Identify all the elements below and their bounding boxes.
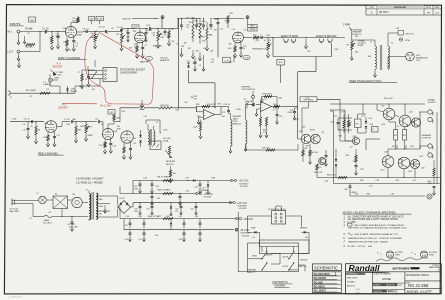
svg-text:GAIN: GAIN: [88, 134, 93, 137]
boxed label CLN: [223, 57, 231, 63]
svg-text:SLO-BLO: SLO-BLO: [43, 223, 52, 225]
svg-text:R19: R19: [122, 111, 126, 113]
label C12 stub: [229, 55, 234, 63]
svg-text:RED: RED: [99, 199, 104, 201]
ground stub: [23, 36, 26, 44]
output transistor Q14: [398, 157, 412, 173]
svg-text:C2D: C2D: [245, 57, 249, 59]
svg-text:600: 600: [355, 52, 358, 54]
V2B cathode: [99, 140, 113, 154]
note 8 package drawing 2: [411, 251, 437, 258]
svg-text:R58: R58: [360, 180, 364, 182]
svg-text:R23: R23: [256, 40, 260, 42]
plug box top wires: [276, 206, 281, 211]
zener D2 5.6V: [66, 86, 77, 93]
svg-text:FOOTSWITCH SOCKET: FOOTSWITCH SOCKET: [120, 69, 146, 71]
input pair Q1 Q2: [301, 134, 320, 144]
bias pot poweramp: [347, 114, 351, 133]
svg-text:R13: R13: [147, 25, 151, 27]
svg-text:R56: R56: [346, 155, 350, 157]
svg-text:SEE: SEE: [368, 246, 373, 248]
wire mains bottom: [30, 204, 89, 218]
svg-text:C14: C14: [232, 29, 236, 31]
svg-text:R8 1/2 WATT: R8 1/2 WATT: [158, 175, 171, 178]
boxed label B2: [89, 17, 95, 25]
note 8: [344, 246, 373, 248]
svg-text:ALL CAPACITORS ARE RATED I: ALL CAPACITORS ARE RATED IN MFD AT 100 V…: [347, 215, 405, 218]
wire clean to B node: [221, 17, 244, 19]
svg-text:ZENER: ZENER: [57, 105, 68, 109]
wire poweramp in: [247, 105, 322, 109]
ellipse label C2D: [243, 55, 250, 59]
svg-text:TANK: TANK: [233, 117, 239, 120]
svg-text:J9: J9: [265, 99, 267, 101]
boxed label THERMAL: [300, 97, 317, 102]
wire LO input: [24, 32, 40, 52]
svg-text:HI 1: HI 1: [8, 31, 13, 34]
red note N=1.33A: [100, 104, 111, 108]
svg-text:500K: 500K: [225, 20, 230, 22]
supply rail 1: [133, 179, 231, 181]
label INTERNAL SPEAKER: [353, 28, 363, 36]
label +45V: [384, 98, 393, 100]
reverb tank coils: [229, 114, 247, 154]
red note 4V ZENER top: [52, 61, 63, 68]
reverb pot: [165, 146, 172, 158]
svg-text:REVISIONS: REVISIONS: [394, 7, 406, 9]
svg-text:YEL: YEL: [99, 214, 103, 216]
svg-text:R47: R47: [356, 123, 359, 125]
svg-text:R28: R28: [176, 109, 180, 111]
svg-text:.02: .02: [186, 27, 189, 29]
svg-text:D14: D14: [369, 118, 373, 120]
svg-text:R65: R65: [139, 216, 143, 218]
svg-text:MID 50K: MID 50K: [123, 18, 132, 20]
svg-text:Q13: Q13: [384, 152, 388, 154]
wire line out vertical: [351, 31, 353, 41]
svg-text:C23: C23: [306, 98, 310, 100]
svg-text:R46: R46: [304, 148, 308, 150]
power transformer T1: [88, 191, 98, 222]
note 5: [344, 233, 400, 236]
label BOTH 2: [283, 266, 289, 268]
label R69 watt: [148, 215, 162, 218]
component value labels: [10, 13, 425, 220]
svg-text:R55: R55: [420, 156, 424, 158]
svg-text:+24 V DC: +24 V DC: [239, 181, 249, 183]
wire top feed: [115, 29, 122, 32]
opamp U1A labels: [196, 104, 231, 106]
svg-text:± .5: ± .5: [356, 292, 359, 294]
wire driver: [340, 130, 352, 141]
output cap to gnd: [433, 184, 436, 196]
svg-text:C37: C37: [413, 180, 417, 182]
svg-text:R1: R1: [438, 269, 440, 271]
mid pot: [120, 33, 125, 51]
label RED switch: [252, 255, 257, 257]
rail mid terminal: [230, 201, 236, 204]
svg-text:REV: REV: [250, 26, 255, 28]
svg-text:MODEL # LEFT: MODEL # LEFT: [407, 290, 433, 294]
svg-text:R37: R37: [355, 36, 359, 38]
wire red ch to V2B: [86, 120, 103, 130]
capacitor C10: [180, 18, 183, 30]
LED pair D4 D5: [134, 130, 142, 147]
svg-text:C5: C5: [106, 33, 108, 35]
svg-text:C12: C12: [95, 119, 99, 121]
label BOTH 1: [283, 256, 289, 258]
ground mid: [140, 100, 143, 108]
svg-text:C11: C11: [57, 135, 60, 137]
svg-text:R9: R9: [117, 34, 119, 36]
svg-text:J5: J5: [320, 41, 322, 43]
svg-text:SCHEMATIC DWGS: SCHEMATIC DWGS: [406, 274, 429, 277]
clean channel vertical: [211, 27, 219, 63]
approved cell: [373, 290, 398, 293]
emitter resistor R51: [394, 130, 398, 141]
svg-text:T2: T2: [370, 42, 372, 44]
svg-text:RG 21 668: RG 21 668: [408, 283, 429, 288]
rail1 caps: [151, 181, 202, 194]
bridge wires: [110, 181, 133, 218]
svg-text:C5 .02: C5 .02: [99, 27, 106, 29]
label FRONT OF PLUG: [268, 209, 286, 211]
svg-text:J3: J3: [284, 41, 286, 43]
supply node B+ 2: [246, 16, 249, 19]
footswitch switch mesh: [248, 240, 309, 272]
svg-text:4FB2C1B: 4FB2C1B: [233, 123, 242, 126]
svg-text:2200: 2200: [134, 211, 138, 213]
svg-text:S1: S1: [55, 194, 57, 196]
label REVERB TANK: [233, 116, 242, 126]
svg-text:R50 4.7K: R50 4.7K: [327, 174, 336, 176]
svg-text:J2: J2: [10, 97, 12, 99]
opamp U1A out: [215, 107, 229, 119]
svg-text:R44 +45V: R44 +45V: [384, 98, 393, 100]
cluster C15 .047: [187, 58, 197, 71]
svg-text:C9: C9: [23, 124, 25, 126]
Q pair emitter resistor: [309, 144, 319, 164]
svg-text:R53: R53: [411, 146, 415, 148]
svg-text:THIS SYMBOL INDICATES A DC: THIS SYMBOL INDICATES A DC VOLTAGE FROM: [354, 224, 404, 227]
wire after gain: [95, 31, 104, 33]
label SIGNAL OUTPUT LEVEL: [358, 39, 367, 47]
svg-text:C29: C29: [348, 125, 352, 127]
label USED ON RG-EIGHT ONLY: [349, 79, 397, 83]
svg-text:C59: C59: [179, 216, 183, 218]
svg-text:R43 4.7K: R43 4.7K: [314, 172, 323, 174]
svg-text:'GREEN': 'GREEN': [300, 228, 309, 230]
svg-text:+45 V DC: +45 V DC: [243, 219, 253, 221]
reverb tank plugs: [244, 99, 267, 109]
svg-text:C51: C51: [146, 208, 149, 210]
svg-text:R2 68K: R2 68K: [25, 46, 33, 48]
capacitor C4 .02: [99, 27, 116, 33]
wire HI input: [24, 31, 44, 32]
poweramp extra wires: [363, 104, 421, 164]
input jack LO-2: [8, 50, 25, 54]
emitter resistor R52: [403, 130, 407, 141]
svg-text:R1 68K: R1 68K: [25, 28, 33, 30]
op-amp U1B: [261, 102, 272, 112]
svg-text:R1: R1: [28, 33, 30, 35]
wire outputs top: [389, 103, 406, 129]
svg-text:R21: R21: [230, 13, 234, 15]
effects loop bottom wire: [273, 38, 332, 57]
svg-text:.047: .047: [211, 61, 215, 63]
svg-text:ADAPTER: ADAPTER: [160, 59, 170, 62]
svg-text:DWG: DWG: [406, 283, 411, 285]
svg-text:SCHEMATIC: SCHEMATIC: [314, 265, 338, 270]
rail3 terminal: [236, 217, 242, 220]
lo cut switch parts: [161, 29, 171, 46]
red note 4V ZENER lower: [57, 102, 68, 109]
svg-text:SYM: SYM: [369, 7, 374, 9]
svg-text:SINGLE: SINGLE: [300, 260, 308, 262]
wire mains top: [30, 200, 89, 203]
svg-text:4: 4: [428, 151, 429, 153]
svg-text:GRN: GRN: [99, 206, 104, 208]
label RED CHANNEL: [38, 151, 64, 155]
svg-text:PRESENCE 2K: PRESENCE 2K: [252, 48, 268, 50]
switch contacts: [261, 251, 294, 270]
svg-text:R45: R45: [339, 135, 343, 137]
svg-text:D5: D5: [134, 143, 136, 145]
svg-text:C? .02: C? .02: [64, 119, 70, 121]
resistor R3 1M: [44, 32, 46, 37]
svg-text:2.: 2.: [343, 219, 346, 221]
label SIGNAL OUTPUT: [428, 99, 437, 104]
reverb cap C22: [276, 108, 283, 124]
LED symbol D1: [50, 70, 57, 76]
svg-text:C43: C43: [186, 191, 190, 193]
wire U1A out to tank: [229, 113, 231, 115]
svg-text:APPR: APPR: [388, 290, 394, 293]
output transistor Q13: [381, 156, 394, 172]
svg-text:C42: C42: [157, 198, 161, 200]
label +45VDC: [243, 219, 253, 221]
rail1 more caps: [134, 181, 142, 193]
capacitor C8 .02: [24, 119, 33, 124]
svg-text:J4: J4: [292, 41, 294, 43]
opamp U1B feedback: [262, 94, 278, 108]
svg-text:C20: C20: [184, 102, 188, 104]
svg-text:OUTPUT: OUTPUT: [428, 102, 437, 104]
svg-text:2 PWR: 2 PWR: [343, 24, 351, 26]
svg-text:OR 4556: OR 4556: [204, 196, 212, 198]
driver Q7: [350, 137, 360, 148]
svg-text:THE POINT TO CHASSIS GROUN: THE POINT TO CHASSIS GROUND. ALL VOLTAGE…: [348, 227, 408, 230]
svg-text:LAMP: LAMP: [44, 83, 50, 86]
pilot lamp: [37, 193, 47, 204]
svg-text:1M: 1M: [97, 34, 100, 36]
svg-text:N=1.33A: N=1.33A: [100, 104, 111, 108]
V2A cathode parts: [43, 132, 57, 146]
U1B plus ground: [255, 109, 260, 116]
svg-text:20: 20: [31, 126, 33, 128]
label SINGLE: [300, 260, 308, 262]
wire tank out: [245, 105, 247, 121]
svg-text:-45 V DC: -45 V DC: [240, 230, 250, 232]
wire rev footswitch: [252, 91, 255, 106]
svg-text:1.4: 1.4: [199, 65, 202, 67]
svg-text:Randall: Randall: [349, 263, 381, 273]
svg-text:RED CHANNEL: RED CHANNEL: [38, 151, 59, 155]
svg-text:.33: .33: [406, 126, 408, 128]
ground top: [17, 60, 20, 68]
svg-text:DRIVE: DRIVE: [249, 29, 256, 31]
boxed label B2 red: [108, 110, 115, 115]
svg-text:a.aa.6310.pdf.44: a.aa.6310.pdf.44: [8, 297, 22, 299]
LED D1 7837: [56, 72, 64, 77]
V2B plate up: [108, 110, 115, 129]
svg-text:560K: 560K: [80, 126, 85, 128]
svg-text:FOOTSWITCH: FOOTSWITCH: [242, 89, 256, 91]
svg-text:R26: R26: [196, 104, 200, 106]
label MASTER: [153, 45, 162, 48]
svg-text:.02: .02: [101, 124, 104, 126]
mid pot 2: [205, 22, 212, 51]
labels tone values: [171, 41, 188, 45]
s/b out component: [398, 31, 415, 36]
svg-text:C2: C2: [148, 58, 150, 60]
ac plug: [12, 199, 30, 205]
svg-text:10W: 10W: [428, 183, 432, 185]
svg-text:R5: R5: [69, 50, 71, 52]
svg-text:RCA: RCA: [405, 39, 410, 42]
resistor R60 10W: [428, 160, 436, 185]
svg-text:C58: C58: [179, 239, 182, 241]
svg-text:ZENER: ZENER: [71, 91, 78, 93]
coupling cap C13: [150, 27, 159, 30]
label GAIN: [90, 36, 96, 39]
svg-text:100K: 100K: [72, 20, 77, 22]
svg-text:1M: 1M: [160, 34, 163, 36]
svg-text:R59: R59: [396, 180, 400, 182]
wire loop to poweramp: [298, 57, 316, 97]
supply rail 2: [120, 186, 196, 195]
label CH .DSE: [186, 18, 195, 20]
svg-text:R15: R15: [171, 29, 175, 31]
svg-text:R45: R45: [342, 111, 346, 113]
transistor Q3: [318, 158, 325, 169]
svg-text:M1: M1: [73, 194, 76, 196]
bias resistor box: [355, 119, 362, 128]
capacitor C2: [56, 31, 59, 49]
svg-text:R11: R11: [133, 31, 136, 33]
svg-text:CHASSIS REAR: CHASSIS REAR: [120, 71, 137, 74]
label FOOTSWITCH DIAGRAM: [272, 282, 292, 287]
svg-text:Q10: Q10: [382, 124, 386, 126]
svg-text:C7: C7: [85, 79, 87, 81]
zobel R56 C31: [355, 149, 358, 175]
clean mixer L wire: [189, 70, 216, 108]
poweramp emitter wires 2: [397, 145, 406, 149]
svg-text:600: 600: [368, 56, 371, 58]
svg-text:J6: J6: [328, 41, 330, 43]
U1B output wire: [272, 104, 299, 108]
svg-text:R32: R32: [288, 112, 292, 114]
svg-text:SCALE OF DRAWING: SCALE OF DRAWING: [373, 272, 391, 275]
thermal breaker: [72, 194, 82, 208]
svg-text:ALL RESISTORS ARE ¼ WATT: ALL RESISTORS ARE ¼ WATT UNLESS NOTED.: [347, 218, 399, 221]
svg-text:B+305: B+305: [97, 18, 104, 20]
svg-text:C45: C45: [334, 115, 338, 117]
speaker jack 4: [428, 151, 433, 158]
bass pot BASS: [199, 18, 205, 44]
svg-text:OUT: OUT: [416, 60, 421, 62]
resistor R50 4.7K: [327, 174, 347, 178]
line transformer T2: [352, 40, 390, 77]
svg-text:R68 1/2 WATT: R68 1/2 WATT: [158, 189, 172, 192]
V1B cathode network: [129, 43, 145, 58]
svg-text:DATE: DATE: [435, 6, 440, 9]
boxed label RSD: [277, 60, 284, 84]
svg-text:SELECT: SELECT: [247, 272, 256, 274]
label 50K clean: [215, 19, 219, 21]
svg-text:C4: C4: [91, 33, 93, 35]
svg-text:R6B 1/2 WATT: R6B 1/2 WATT: [148, 215, 162, 218]
label SPEAKER OUTPUTS: [422, 134, 432, 139]
svg-text:.02: .02: [153, 35, 156, 37]
svg-text:R30: R30: [218, 104, 222, 106]
svg-text:10K 1WATT: 10K 1WATT: [26, 89, 38, 92]
title small corner text: [429, 265, 441, 271]
wire to Q5 base: [290, 97, 301, 140]
tube V4: [233, 32, 244, 43]
lamp LF1: [163, 137, 171, 143]
svg-text:2-12 RG80-112 + RG80ES: 2-12 RG80-112 + RG80ES: [75, 182, 103, 184]
rail2 caps: [151, 193, 182, 205]
arrow 2PWR: [349, 27, 352, 31]
master pot MASTER: [156, 28, 161, 48]
speaker jack 1: [420, 110, 433, 115]
svg-text:C19 .22: C19 .22: [223, 104, 231, 106]
svg-text:J7: J7: [273, 109, 275, 111]
svg-text:D16: D16: [144, 178, 148, 180]
svg-text:250K: 250K: [202, 21, 207, 23]
svg-text:DECIMAL ±: DECIMAL ±: [347, 281, 356, 284]
label DIRTY CHANNEL: [58, 56, 87, 60]
tube V2A: [45, 121, 57, 133]
svg-text:R17: R17: [89, 127, 93, 129]
wire V4 out: [243, 37, 252, 39]
svg-text:THE MECL: THE MECL: [303, 100, 314, 102]
U1B out resistor: [259, 112, 268, 138]
svg-text:▷: ▷: [377, 251, 379, 254]
svg-text:R52: R52: [403, 135, 406, 137]
svg-text:C19: C19: [144, 116, 148, 118]
resistor R4 1M label: [57, 36, 60, 38]
label XLR BALANCED OUT: [415, 55, 428, 62]
svg-text:CHECKED: CHECKED: [373, 291, 382, 293]
svg-text:LDR: LDR: [164, 129, 168, 131]
resistor cluster below socket: [78, 70, 96, 89]
effects send jacks: [273, 37, 318, 43]
svg-text:220K: 220K: [193, 126, 198, 128]
svg-text:MID: MID: [127, 36, 131, 38]
wire to V1 grid: [56, 31, 66, 33]
svg-text:C35: C35: [376, 180, 380, 182]
svg-text:R63: R63: [212, 178, 216, 180]
wire DR terminal: [120, 106, 145, 110]
resistor R1 68K: [25, 28, 33, 30]
resistor R28 10K: [145, 105, 215, 109]
svg-text:C57: C57: [139, 239, 142, 241]
pencil scribble above title block: [376, 257, 428, 261]
boxed label 115V: [29, 17, 36, 22]
drawn cell: [373, 284, 402, 287]
